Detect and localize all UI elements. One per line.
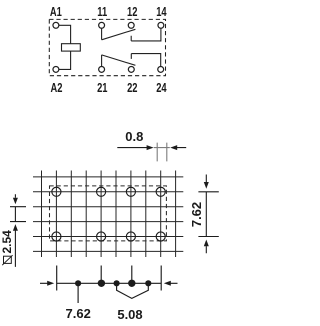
svg-text:0.8: 0.8 xyxy=(125,129,143,144)
svg-text:2.54: 2.54 xyxy=(0,230,14,254)
svg-text:21: 21 xyxy=(97,82,107,96)
svg-text:22: 22 xyxy=(127,82,137,96)
svg-text:7.62: 7.62 xyxy=(66,306,91,321)
svg-text:12: 12 xyxy=(127,6,137,20)
svg-text:11: 11 xyxy=(97,6,107,20)
svg-text:14: 14 xyxy=(156,6,167,20)
svg-text:7.62: 7.62 xyxy=(189,202,204,227)
svg-text:5.08: 5.08 xyxy=(117,307,142,322)
svg-text:A2: A2 xyxy=(51,82,63,96)
svg-text:A1: A1 xyxy=(50,6,62,20)
svg-text:24: 24 xyxy=(156,82,167,96)
